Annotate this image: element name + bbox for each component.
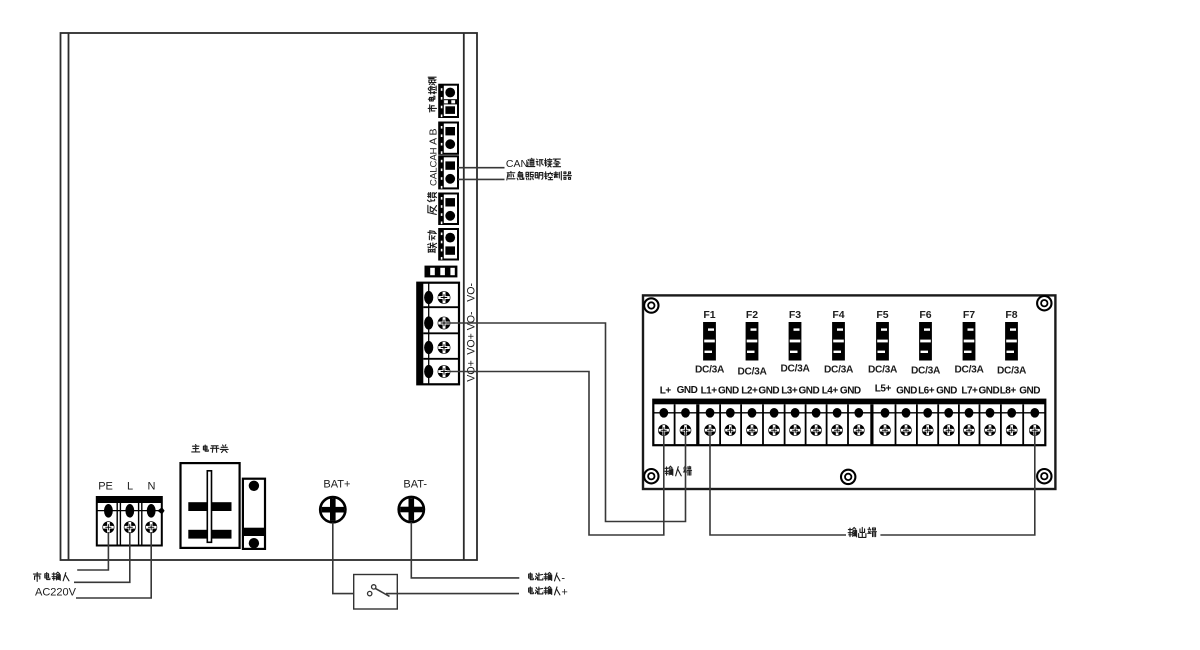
svg-text:F7: F7: [963, 309, 975, 321]
terminal block VO left bar: [417, 283, 423, 385]
label VO+ (third): [466, 333, 478, 355]
strip pin #9: [833, 408, 842, 418]
cabinet inner left wall: [68, 33, 70, 560]
strip screw #8: [810, 424, 822, 436]
PE/L/N screw 2: [124, 521, 136, 533]
strip pin #1: [659, 408, 668, 418]
battery switch blade: [375, 588, 389, 596]
svg-text:L5+: L5+: [875, 384, 892, 395]
strip screw #16: [984, 424, 996, 436]
strip screw #14: [943, 424, 955, 436]
VO block screw 2: [438, 317, 451, 330]
output terminal strip top bar: [653, 400, 1045, 405]
svg-text:VO-: VO-: [466, 311, 478, 330]
fuse F8 body: [1005, 322, 1018, 361]
strip pin #3: [706, 408, 715, 418]
svg-text:AC220V: AC220V: [35, 586, 77, 598]
VO block screw 4: [438, 365, 451, 378]
wire L1+ to 输出端: [710, 432, 846, 535]
strip pin #11: [881, 408, 890, 418]
svg-text:N: N: [148, 481, 156, 493]
label 市电检测 (rotated): [428, 77, 436, 112]
VO block screw 3: [438, 341, 451, 354]
strip pin #12: [902, 408, 911, 418]
svg-text:F8: F8: [1005, 309, 1017, 321]
label 主电开关: [192, 445, 200, 452]
strip pin #7: [791, 408, 800, 418]
VO block pin 2: [424, 316, 433, 329]
label 联动 (rotated): [428, 231, 437, 253]
svg-text:F1: F1: [703, 309, 715, 321]
terminal block PE/L/N top bar: [97, 497, 162, 503]
svg-text:DC/3A: DC/3A: [911, 365, 941, 376]
connector J1 mains-detect (市电检测): [439, 85, 458, 117]
switch aux top contact: [249, 481, 259, 491]
svg-text:DC/3A: DC/3A: [780, 363, 810, 374]
strip pin #2: [681, 408, 690, 418]
switch aux band: [243, 528, 265, 536]
terminal strip cell dividers: [675, 404, 1024, 445]
fuse F1 body: [703, 322, 716, 361]
N pin arrow: [157, 507, 164, 514]
terminal strip pin rail: [653, 412, 1045, 414]
svg-text:DC/3A: DC/3A: [737, 366, 767, 377]
svg-text:L3+: L3+: [781, 386, 798, 397]
svg-text:F2: F2: [746, 309, 758, 321]
label VO- (second): [466, 311, 478, 330]
strip screw #1: [658, 424, 670, 436]
svg-text:L1+: L1+: [701, 386, 718, 397]
label 反馈 (rotated): [427, 193, 436, 215]
main switch lever slot: [207, 471, 211, 543]
terminal block VO pin rail: [428, 283, 430, 384]
svg-text:VO+: VO+: [466, 333, 478, 355]
switch aux module body: [243, 479, 265, 549]
svg-text:L+: L+: [660, 386, 672, 397]
distribution board outline: [643, 295, 1055, 489]
wire VO+ to L+ terminal: [447, 372, 664, 536]
svg-text:A B: A B: [427, 129, 439, 145]
strip screw #9: [831, 424, 843, 436]
svg-text:DC/3A: DC/3A: [997, 365, 1027, 376]
terminal BAT-: [399, 497, 424, 522]
svg-text:DC/3A: DC/3A: [695, 364, 725, 375]
label 应急照明控制器: [507, 171, 515, 180]
svg-text:+: +: [561, 587, 567, 599]
strip screw #7: [789, 424, 801, 436]
power-supply cabinet outline: [61, 33, 478, 560]
VO block pin 3: [424, 341, 433, 354]
wire BAT+ to switch: [333, 523, 368, 594]
svg-text:L4+: L4+: [822, 386, 839, 397]
label 电池输入-: [529, 573, 534, 580]
svg-text:F3: F3: [789, 309, 801, 321]
wire L to AC220V: [74, 532, 130, 582]
svg-text:CAN: CAN: [506, 158, 528, 170]
strip screw #2: [680, 424, 692, 436]
main switch body: [181, 463, 240, 548]
fuse F5 body: [876, 322, 889, 361]
strip pin #13: [923, 408, 932, 418]
fuse F6 body: [919, 322, 932, 361]
svg-text:L: L: [127, 481, 133, 493]
svg-text:GND: GND: [1019, 386, 1040, 397]
strip screw #6: [768, 424, 780, 436]
wire VO- to GND terminal: [447, 323, 686, 522]
battery switch box: [354, 575, 398, 610]
label VO+ (bottom): [466, 360, 478, 382]
svg-text:DC/3A: DC/3A: [868, 364, 898, 375]
strip pin #8: [812, 408, 821, 418]
fuse F3 body: [789, 322, 802, 361]
connector J1 divider and pin: [444, 99, 458, 114]
fuse F4 body: [832, 322, 845, 361]
svg-text:PE: PE: [98, 481, 113, 493]
terminal block VO outline: [417, 283, 459, 385]
svg-text:L7+: L7+: [961, 386, 978, 397]
strip screw #3: [704, 424, 716, 436]
board mounting screw bottom-right: [1037, 469, 1051, 483]
strip screw #4: [725, 424, 737, 436]
svg-text:F5: F5: [876, 309, 888, 321]
strip pin #18: [1030, 408, 1039, 418]
strip pin #10: [854, 408, 863, 418]
fuse F7 body: [963, 322, 976, 361]
strip pin #4: [726, 408, 735, 418]
connector J3 CAN bus: [439, 156, 458, 188]
label CANL CANH (rotated): [428, 147, 439, 186]
fuse F2 body: [746, 322, 759, 361]
label 市电输入: [33, 572, 41, 581]
PE/L/N pin 2: [125, 504, 134, 518]
label 电池输入+: [529, 587, 534, 594]
main switch contact bar lower: [188, 530, 231, 539]
PE/L/N pin rail: [97, 510, 162, 512]
output terminal strip outline: [653, 400, 1045, 446]
VO block pin 4: [424, 365, 433, 378]
switch aux bottom contact: [249, 538, 259, 548]
strip pin #17: [1007, 408, 1016, 418]
strip screw #13: [922, 424, 934, 436]
VO block screw 1: [438, 291, 451, 304]
wire CANL to controller: [458, 178, 505, 180]
svg-text:DC/3A: DC/3A: [824, 364, 854, 375]
battery switch contact left: [368, 591, 372, 595]
strip pin #14: [944, 408, 953, 418]
strip screw #11: [879, 424, 891, 436]
label 输入端: [665, 466, 673, 475]
vent slot bar: [425, 266, 458, 278]
PE/L/N pin 1: [104, 504, 113, 518]
svg-text:F6: F6: [919, 309, 931, 321]
strip pin #6: [770, 408, 779, 418]
svg-text:BAT+: BAT+: [323, 479, 350, 491]
svg-text:CALCAH: CALCAH: [428, 147, 439, 186]
svg-text:BAT-: BAT-: [403, 479, 427, 491]
connector J4 feedback (反馈): [439, 194, 458, 225]
svg-text:GND: GND: [896, 386, 917, 397]
wire switch to 电池输入+: [386, 593, 519, 595]
svg-text:GND: GND: [840, 386, 861, 397]
svg-text:GND: GND: [799, 386, 820, 397]
svg-text:GND: GND: [979, 386, 1000, 397]
connector J2 A/B: [439, 123, 458, 154]
wire 输出端 to L8 GND: [880, 432, 1034, 535]
terminal BAT+: [320, 497, 345, 522]
wire CANH to controller: [458, 167, 505, 169]
svg-text:F4: F4: [832, 309, 844, 321]
terminal block PE/L/N outline: [97, 497, 162, 546]
label VO- (top): [466, 282, 478, 301]
battery switch contact upper: [372, 585, 376, 589]
svg-text:GND: GND: [758, 386, 779, 397]
connector J5 linkage (联动): [439, 229, 458, 260]
strip pin #16: [986, 408, 995, 418]
svg-text:L6+: L6+: [918, 386, 935, 397]
board mounting screw bottom-middle: [841, 470, 855, 484]
strip screw #17: [1006, 424, 1018, 436]
strip screw #10: [853, 424, 865, 436]
strip screw #18: [1029, 424, 1041, 436]
svg-text:L2+: L2+: [741, 386, 758, 397]
strip screw #15: [963, 424, 975, 436]
svg-text:GND: GND: [677, 385, 698, 396]
label A B (rotated): [427, 129, 439, 145]
strip pin #15: [965, 408, 974, 418]
wire PE to 市电输入: [77, 532, 108, 570]
terminal block VO dividers: [423, 307, 459, 359]
PE/L/N pin 3: [147, 504, 156, 518]
svg-text:L8+: L8+: [1000, 386, 1017, 397]
main switch contact bar upper: [188, 502, 231, 511]
VO block pin 1: [424, 291, 433, 304]
svg-text:GND: GND: [936, 386, 957, 397]
PE/L/N screw 1: [102, 521, 114, 533]
label 输出端: [848, 527, 856, 536]
svg-text:VO-: VO-: [466, 282, 478, 301]
wire BAT- to 电池输入-: [411, 522, 519, 578]
strip screw #5: [746, 424, 758, 436]
strip screw #12: [900, 424, 912, 436]
PE/L/N cell dividers: [117, 503, 142, 546]
wire N input: [76, 532, 151, 598]
strip pin #5: [748, 408, 757, 418]
board mounting screw top-right: [1037, 296, 1051, 310]
board mounting screw top-left: [644, 298, 658, 312]
PE/L/N screw 3: [145, 521, 157, 533]
svg-text:DC/3A: DC/3A: [954, 364, 984, 375]
svg-text:-: -: [561, 573, 565, 585]
cabinet inner right wall: [463, 33, 465, 560]
svg-text:GND: GND: [718, 386, 739, 397]
board mounting screw bottom-left: [644, 469, 658, 483]
